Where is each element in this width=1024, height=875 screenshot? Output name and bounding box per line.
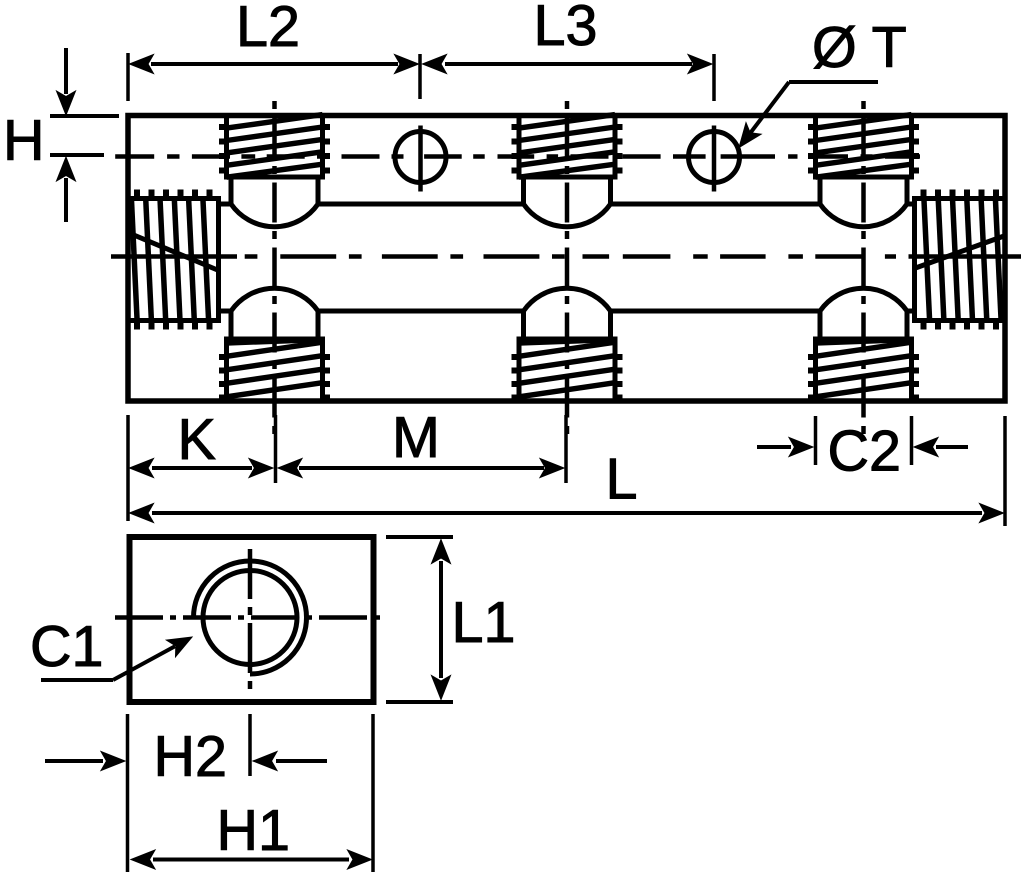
- svg-text:Ø T: Ø T: [812, 16, 907, 80]
- end view vertical centerline: [248, 549, 253, 693]
- dimension L1: [386, 537, 453, 702]
- threaded hole 1 bottom: [219, 288, 330, 401]
- svg-text:L3: L3: [534, 0, 598, 58]
- dimension H: [50, 48, 119, 222]
- threaded hole 3 top: [808, 115, 919, 227]
- tapped hole inner circle: [203, 571, 297, 665]
- vertical centerline hole 2: [565, 101, 570, 437]
- dimension K: [128, 415, 276, 521]
- svg-text:K: K: [178, 408, 216, 472]
- svg-text:L1: L1: [452, 591, 516, 655]
- leader line C1: [41, 637, 192, 680]
- left threaded end port: [128, 190, 219, 330]
- leader line T: [739, 82, 878, 148]
- upper bore line: [219, 202, 915, 207]
- dimension C2: [757, 416, 968, 465]
- svg-text:M: M: [392, 406, 440, 470]
- end view horizontal centerline: [115, 615, 385, 620]
- vertical centerline hole 1: [272, 101, 277, 437]
- svg-text:H2: H2: [154, 725, 228, 789]
- threaded hole 1 top: [219, 115, 330, 227]
- threaded hole 2 top: [512, 115, 623, 227]
- dimension H2: [45, 714, 327, 872]
- svg-text:H1: H1: [217, 799, 291, 863]
- thread outer arc: [194, 561, 307, 674]
- through hole T left: [395, 126, 446, 192]
- dimension L3: [423, 54, 715, 101]
- threaded hole 3 bottom: [808, 288, 919, 401]
- svg-text:C2: C2: [828, 420, 902, 484]
- svg-text:H: H: [3, 109, 45, 173]
- upper bore centerline: [115, 154, 920, 159]
- dimension H1: [131, 714, 373, 872]
- end view outline: [130, 537, 374, 702]
- right threaded end port: [915, 190, 1006, 330]
- manifold block outline (top view): [128, 116, 1005, 402]
- vertical centerline hole 3: [861, 101, 866, 437]
- dimension L: [130, 416, 1006, 526]
- through hole T right: [689, 126, 740, 192]
- lower bore line: [219, 309, 915, 314]
- threaded hole 2 bottom: [512, 288, 623, 401]
- svg-text:L2: L2: [236, 0, 300, 59]
- svg-text:C1: C1: [30, 615, 104, 679]
- svg-text:L: L: [606, 448, 638, 512]
- main horizontal centerline: [111, 254, 1021, 259]
- dimension M: [278, 415, 566, 483]
- dimension L2: [128, 53, 420, 101]
